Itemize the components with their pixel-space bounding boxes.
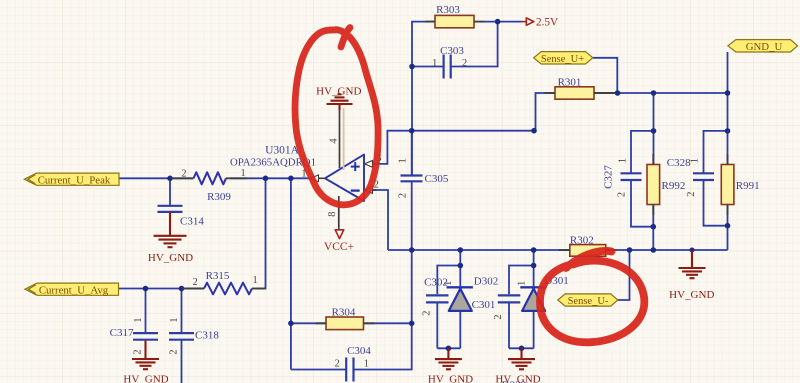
wire R301 left riser (536, 93, 556, 131)
resistor R302 (570, 245, 606, 257)
svg-text:1: 1 (432, 58, 437, 69)
wire op-amp plus input riser and top bus (372, 131, 535, 164)
port Current_U_Peak (24, 173, 119, 185)
wire R301 right bus (594, 92, 728, 94)
diode D302 (447, 287, 473, 311)
wire C305 top (411, 131, 413, 175)
node GND_U bus junction (725, 90, 731, 96)
wire diode D302 top (459, 250, 461, 286)
node R991 bottom junction (725, 223, 731, 229)
node R304 junction (409, 321, 415, 327)
svg-text:2: 2 (335, 359, 340, 370)
svg-text:HV_GND: HV_GND (669, 289, 714, 301)
annotation red circle op-amp (295, 28, 378, 205)
svg-text:C328: C328 (667, 157, 691, 169)
wire Sense_U+ drop (593, 58, 618, 93)
node Sense_U- junction (627, 247, 633, 253)
op-amp pin 8 (338, 196, 340, 230)
wire pair1 connector (437, 266, 460, 295)
capacitor C328 (693, 173, 714, 180)
wire pair1 bottom rail (437, 347, 460, 349)
wire C318 top (181, 289, 183, 333)
capacitor C317 (133, 333, 158, 340)
wire C303 left (412, 66, 444, 68)
svg-text:R309: R309 (207, 191, 231, 203)
svg-text:VCC+: VCC+ (324, 241, 354, 253)
svg-text:2.5V: 2.5V (536, 17, 558, 29)
capacitor C318 (169, 333, 194, 340)
node C318 junction (179, 286, 185, 292)
resistor R309 (172, 172, 248, 184)
svg-text:2: 2 (133, 349, 144, 354)
wire Current_U_Avg to R315 (119, 288, 205, 290)
diode D301 (520, 287, 546, 311)
node plus bus C305 junction (409, 128, 415, 134)
wire C304 right (354, 250, 412, 370)
svg-text:D302: D302 (474, 276, 498, 288)
wire feedback left riser (290, 178, 292, 369)
resistor pin stubs (316, 22, 728, 324)
svg-text:C327: C327 (603, 165, 615, 189)
net label Sense_U+ (534, 52, 593, 64)
artifact tan line (343, 108, 345, 170)
node plus bus right end junction (531, 128, 537, 134)
ground HV_GND pair1 (435, 348, 462, 369)
svg-text:1: 1 (443, 281, 454, 286)
svg-text:C303: C303 (440, 45, 464, 57)
svg-text:HV_GND: HV_GND (316, 86, 361, 98)
wire diode D301 top (533, 250, 535, 286)
svg-text:R303: R303 (436, 4, 460, 16)
wire C303 right riser (451, 22, 498, 67)
capacitor C304 (346, 358, 353, 382)
svg-text:1: 1 (517, 281, 528, 286)
resistor R304 (326, 317, 364, 330)
ground HV_GND pair2 (508, 348, 535, 369)
wire C328 bottom (704, 180, 728, 226)
svg-text:1: 1 (241, 168, 246, 179)
svg-text:1: 1 (690, 158, 701, 163)
svg-text:Current_U_Avg: Current_U_Avg (39, 285, 109, 297)
wire pair2 connector (509, 266, 534, 295)
svg-text:C305: C305 (425, 173, 449, 185)
resistor R992 (647, 165, 660, 205)
wire diode D301 bottom (533, 311, 535, 348)
svg-text:R301: R301 (558, 76, 582, 88)
port Current_U_Avg (25, 283, 119, 295)
node R315 riser junction (263, 176, 269, 182)
wire R303 right to 2.5V (485, 21, 522, 23)
svg-text:2: 2 (686, 192, 697, 197)
svg-text:U301A: U301A (265, 144, 300, 156)
wire bottom bus left of R302 (388, 249, 570, 251)
wire R991 bottom (727, 205, 729, 251)
op-amp U301A (325, 155, 364, 202)
ground HV_GND under C314 (154, 212, 187, 247)
ground HV_GND above op-amp (327, 94, 353, 110)
svg-text:D322: D322 (502, 380, 526, 383)
capacitor C302 (426, 295, 449, 302)
net label GND_U (728, 40, 798, 52)
wire R304 left (291, 322, 326, 324)
wire R315 right riser (256, 178, 266, 288)
svg-text:1: 1 (364, 359, 369, 370)
svg-text:4: 4 (328, 138, 339, 143)
wire C317 top (145, 289, 147, 333)
ground HV_GND under C317 (132, 341, 159, 370)
resistor R301 (555, 87, 594, 99)
resistor R303 (435, 15, 474, 27)
svg-text:2: 2 (169, 349, 180, 354)
power 2.5V arrow (521, 18, 534, 25)
svg-text:R304: R304 (332, 307, 356, 319)
wire R991 top (727, 131, 729, 165)
node 2.5V junction (495, 19, 501, 25)
svg-text:C304: C304 (347, 345, 371, 357)
wire Sense_U- drop (618, 250, 630, 300)
op-amp minus input pin stub (364, 187, 377, 194)
wire C328 top stub (704, 131, 728, 173)
wire C305 bottom (411, 182, 413, 251)
capacitor C305 (401, 176, 423, 182)
node pair2 ground junction (519, 346, 525, 352)
wire R991 branch drop (727, 93, 729, 131)
wire op-amp minus input riser (372, 190, 389, 250)
svg-text:1: 1 (253, 275, 258, 286)
wire C318 bottom (181, 341, 183, 383)
op-amp output pin 1 stub (310, 175, 325, 182)
wire C302 bottom (436, 303, 438, 348)
svg-text:R992: R992 (662, 180, 686, 192)
svg-text:C318: C318 (195, 330, 219, 342)
wire C304 left (291, 369, 346, 371)
wire GND_U drop (727, 52, 729, 93)
svg-text:1: 1 (617, 158, 628, 163)
svg-text:Current_U_Peak: Current_U_Peak (38, 175, 111, 187)
capacitor C303 (444, 55, 451, 79)
wire diode D302 bottom (459, 311, 461, 348)
svg-text:C317: C317 (110, 327, 134, 339)
wire R304 right (364, 322, 412, 324)
svg-text:Sense_U+: Sense_U+ (541, 54, 584, 65)
capacitor C301 (498, 295, 521, 302)
node R992 bus junction (651, 90, 657, 96)
wire R992 bottom (652, 205, 654, 251)
wire bottom bus right of R302 (606, 249, 728, 251)
svg-text:HV_GND: HV_GND (123, 374, 168, 383)
node ground rail junction (651, 247, 657, 253)
svg-text:1: 1 (397, 158, 408, 163)
node minus bus C305 junction (409, 247, 415, 253)
svg-text:2: 2 (462, 58, 467, 69)
power VCC+ arrow (335, 230, 344, 239)
capacitor C327 (621, 173, 642, 180)
resistor R991 (721, 165, 734, 205)
wire C314 top (169, 178, 171, 205)
node C328 stub junction (725, 128, 731, 134)
resistor R315 (183, 283, 266, 295)
op-amp plus input pin stub (364, 161, 377, 168)
svg-text:HV_GND: HV_GND (148, 252, 193, 264)
svg-text:HV_GND: HV_GND (428, 374, 473, 383)
wire R992 branch drop (653, 93, 655, 131)
wire pair2 bottom rail (509, 347, 534, 349)
node C327 stub junction (651, 128, 657, 134)
svg-text:2: 2 (397, 193, 408, 198)
wire R303 left column (412, 22, 435, 175)
svg-text:R315: R315 (206, 270, 230, 282)
node diode D302 bus junction (458, 247, 464, 253)
annotation red circle Sense_U- (540, 251, 644, 342)
net label Sense_U- (558, 294, 618, 306)
node C317 junction (143, 286, 149, 292)
svg-text:1: 1 (169, 317, 180, 322)
svg-text:R991: R991 (736, 180, 760, 192)
svg-text:R302: R302 (570, 234, 594, 246)
node HV_GND stub junction (690, 248, 695, 253)
node output junction (288, 176, 294, 182)
svg-text:8: 8 (327, 212, 338, 217)
wire C327 top stub (631, 131, 654, 173)
svg-text:Sense_U-: Sense_U- (568, 296, 609, 307)
wire C301 bottom (508, 303, 510, 348)
wire R309 to op-amp output node (231, 177, 311, 179)
wire R992 top (653, 131, 655, 165)
svg-text:2: 2 (493, 314, 504, 319)
node feedback R304 left junction (288, 321, 294, 327)
node C303 left junction (409, 64, 415, 70)
node R309 input junction (167, 176, 173, 182)
node pair1 connector junction (458, 263, 464, 269)
wire C327 bottom (631, 180, 653, 227)
node diode D301 bus junction (531, 247, 537, 253)
svg-text:2: 2 (617, 192, 628, 197)
wire Current_U_Peak to R309 (119, 177, 194, 179)
svg-text:2: 2 (193, 277, 198, 288)
svg-text:C301: C301 (472, 299, 496, 311)
svg-text:GND_U: GND_U (746, 41, 783, 53)
node pair1 ground junction (446, 346, 452, 352)
op-amp pin 4 (339, 110, 341, 168)
capacitor C314 (158, 206, 183, 212)
svg-text:2: 2 (181, 168, 186, 179)
svg-text:2: 2 (422, 311, 433, 316)
svg-text:1: 1 (133, 317, 144, 322)
svg-text:C314: C314 (180, 215, 204, 227)
node R992 bottom junction (651, 224, 657, 230)
node Sense_U+ bus junction (615, 90, 621, 96)
node pair2 connector junction (531, 263, 537, 269)
ground HV_GND right bus (679, 250, 706, 278)
